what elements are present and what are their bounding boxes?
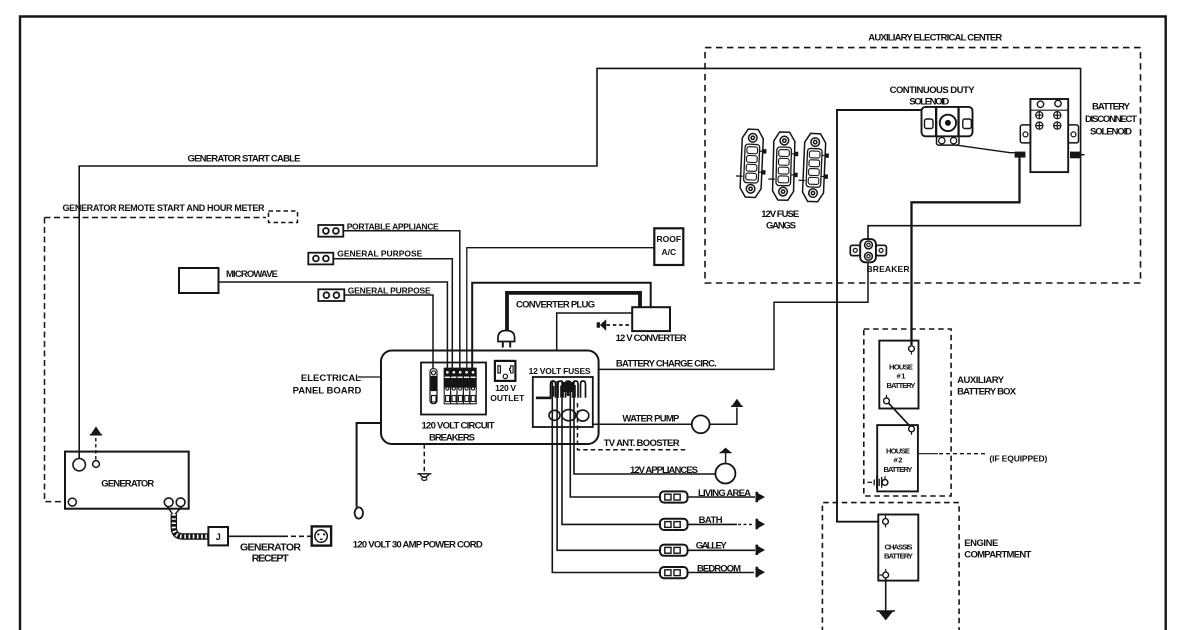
svg-text:ELECTRICAL: ELECTRICAL — [301, 373, 361, 384]
svg-text:MICROWAVE: MICROWAVE — [226, 269, 278, 280]
svg-text:GENERAL PURPOSE: GENERAL PURPOSE — [348, 285, 431, 295]
svg-text:120 VOLT CIRCUIT: 120 VOLT CIRCUIT — [422, 421, 495, 432]
svg-text:GENERATOR: GENERATOR — [101, 479, 154, 490]
svg-text:HOUSE: HOUSE — [886, 447, 910, 456]
svg-text:BATTERY: BATTERY — [887, 381, 916, 390]
svg-text:120 VOLT 30 AMP POWER CORD: 120 VOLT 30 AMP POWER CORD — [353, 539, 483, 550]
svg-text:12V APPLIANCES: 12V APPLIANCES — [630, 465, 698, 476]
svg-text:HOUSE: HOUSE — [889, 363, 913, 372]
svg-text:12 V CONVERTER: 12 V CONVERTER — [616, 333, 687, 344]
svg-text:AUXILIARY: AUXILIARY — [957, 375, 1005, 386]
svg-text:BATTERY: BATTERY — [884, 552, 913, 561]
svg-text:ROOF: ROOF — [657, 234, 682, 244]
svg-text:GENERATOR START CABLE: GENERATOR START CABLE — [188, 154, 301, 165]
svg-text:BATTERY CHARGE CIRC.: BATTERY CHARGE CIRC. — [616, 359, 717, 370]
svg-text:PORTABLE APPLIANCE: PORTABLE APPLIANCE — [347, 221, 439, 231]
svg-text:120 V: 120 V — [495, 383, 516, 393]
svg-text:GANGS: GANGS — [766, 220, 796, 231]
svg-text:BATTERY: BATTERY — [1092, 102, 1131, 113]
svg-text:CONTINUOUS DUTY: CONTINUOUS DUTY — [890, 85, 976, 96]
svg-text:AUXILIARY ELECTRICAL CENTER: AUXILIARY ELECTRICAL CENTER — [868, 33, 1002, 44]
svg-text:J: J — [216, 532, 221, 542]
svg-text:CHASSIS: CHASSIS — [885, 543, 913, 552]
svg-text:PANEL BOARD: PANEL BOARD — [293, 386, 362, 397]
svg-text:LIVING AREA: LIVING AREA — [698, 488, 751, 499]
svg-text:OUTLET: OUTLET — [490, 393, 525, 403]
svg-text:12 VOLT FUSES: 12 VOLT FUSES — [529, 366, 591, 376]
svg-text:BATH: BATH — [699, 515, 723, 526]
svg-text:CONVERTER PLUG: CONVERTER PLUG — [516, 300, 595, 311]
svg-text:COMPARTMENT: COMPARTMENT — [964, 550, 1031, 561]
svg-text:BREAKER: BREAKER — [867, 264, 910, 274]
svg-text:TV ANT. BOOSTER: TV ANT. BOOSTER — [604, 438, 680, 449]
svg-text:GALLEY: GALLEY — [696, 541, 728, 552]
svg-text:WATER PUMP: WATER PUMP — [622, 413, 680, 424]
svg-text:A/C: A/C — [661, 247, 676, 257]
svg-text:BATTERY BOX: BATTERY BOX — [957, 387, 1017, 398]
svg-text:BATTERY: BATTERY — [884, 465, 913, 474]
svg-text:GENERAL PURPOSE: GENERAL PURPOSE — [337, 249, 422, 259]
svg-text:BEDROOM: BEDROOM — [697, 563, 741, 574]
svg-text:GENERATOR REMOTE START AND HOU: GENERATOR REMOTE START AND HOUR METER — [63, 203, 266, 213]
svg-text:12V FUSE: 12V FUSE — [761, 209, 799, 220]
svg-text:(IF EQUIPPED): (IF EQUIPPED) — [989, 453, 1047, 463]
svg-text:#2: #2 — [894, 456, 903, 465]
svg-text:#1: #1 — [897, 372, 907, 381]
svg-text:SOLENOID: SOLENOID — [909, 97, 949, 108]
svg-text:BREAKERS: BREAKERS — [429, 433, 475, 444]
svg-text:SOLENOID: SOLENOID — [1090, 127, 1132, 138]
svg-text:ENGINE: ENGINE — [964, 538, 998, 549]
svg-text:RECEPT: RECEPT — [252, 553, 290, 565]
svg-text:DISCONNECT: DISCONNECT — [1085, 114, 1137, 125]
